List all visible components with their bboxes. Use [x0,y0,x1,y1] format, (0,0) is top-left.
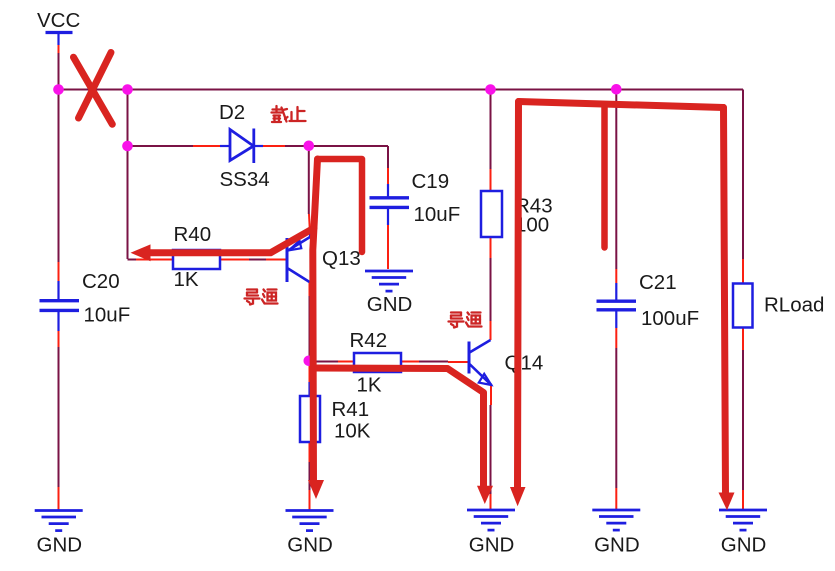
svg-text:GND: GND [469,534,515,557]
svg-text:D2: D2 [219,101,245,124]
svg-text:1K: 1K [174,268,199,291]
svg-text:R40: R40 [174,223,212,246]
svg-text:Q13: Q13 [322,247,361,270]
svg-text:RLoad: RLoad [764,294,824,317]
svg-text:GND: GND [287,534,333,557]
svg-text:VCC: VCC [37,9,80,32]
svg-text:100uF: 100uF [641,307,699,330]
svg-text:GND: GND [367,293,413,316]
svg-text:10uF: 10uF [414,203,461,226]
svg-text:Q14: Q14 [505,352,544,375]
svg-text:C20: C20 [82,270,120,293]
svg-text:SS34: SS34 [220,168,270,191]
svg-text:10uF: 10uF [84,304,131,327]
svg-text:C19: C19 [412,170,450,193]
svg-text:R42: R42 [350,329,388,352]
svg-text:GND: GND [721,534,767,557]
svg-text:C21: C21 [639,271,677,294]
svg-text:1K: 1K [357,373,382,396]
svg-text:GND: GND [37,534,83,557]
svg-text:R41: R41 [332,398,370,421]
svg-text:GND: GND [594,534,640,557]
svg-text:10K: 10K [334,420,371,443]
